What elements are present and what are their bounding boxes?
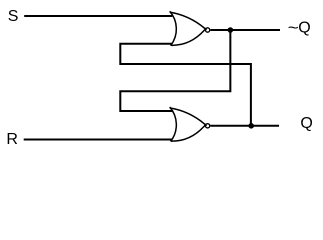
junction node ~Q bbox=[228, 27, 234, 33]
svg-text:R: R bbox=[6, 131, 18, 148]
svg-text:S: S bbox=[8, 8, 19, 25]
wire R input bbox=[24, 139, 173, 141]
svg-text:Q: Q bbox=[300, 115, 312, 132]
wire S input bbox=[24, 15, 172, 17]
wire ~Q output bbox=[210, 29, 280, 31]
NOR gate U1 (top) bbox=[170, 11, 210, 45]
wire feedback net Q to U1 lower input bbox=[120, 44, 251, 126]
svg-text:~: ~ bbox=[288, 18, 299, 36]
wire Q output bbox=[210, 125, 279, 127]
NOR gate U2 (bottom) bbox=[170, 107, 210, 141]
svg-text:Q: Q bbox=[298, 19, 310, 36]
junction node Q bbox=[248, 123, 254, 129]
wire feedback net ~Q to U2 upper input bbox=[120, 30, 230, 111]
